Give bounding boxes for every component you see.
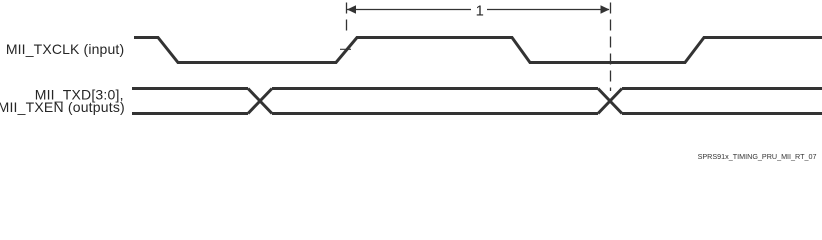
wire dimension line segment left [347,9,471,11]
wire dimension line segment right [487,9,609,11]
wire dashed reference line right (at bus transition) [610,3,612,92]
wire MII_TXD/MII_TXEN bus bottom line [132,112,822,115]
node arrowhead left [347,5,356,13]
node bus crossover 2 [598,89,622,114]
svg-text:MII_TXCLK (input): MII_TXCLK (input) [6,41,124,57]
node arrowhead right [601,5,610,13]
node 50% crossing tick [340,48,351,50]
node bus crossover 1 [248,89,272,114]
svg-text:SPRS91x_TIMING_PRU_MII_RT_07: SPRS91x_TIMING_PRU_MII_RT_07 [698,152,817,161]
svg-text:1: 1 [476,3,484,19]
wire MII_TXCLK clock waveform [134,38,822,63]
svg-text:MII_TXEN (outputs): MII_TXEN (outputs) [0,99,125,115]
wire dashed reference line left (at clock rising edge) [346,3,348,49]
wire MII_TXD/MII_TXEN bus top line [132,87,822,90]
